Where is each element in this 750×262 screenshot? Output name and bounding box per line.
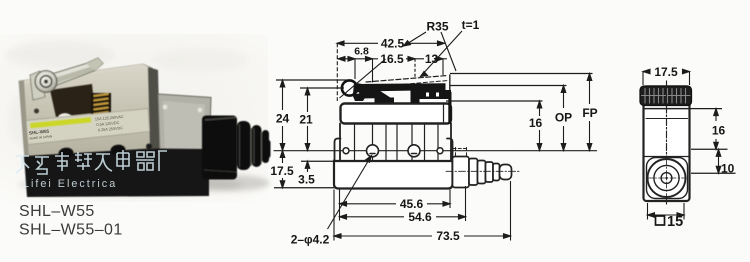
front view: head box <box>341 104 452 124</box>
photo: lever roller <box>35 71 57 93</box>
front view dimension texts <box>270 18 597 247</box>
side view: cable gland rings <box>647 158 688 199</box>
leader to roller pivot <box>340 59 386 98</box>
front view: roller <box>342 80 357 95</box>
caption model numbers <box>19 203 123 239</box>
side view dimension texts <box>654 65 734 230</box>
svg-text:73.5: 73.5 <box>436 229 460 243</box>
photo: ground shadow <box>18 175 270 194</box>
side view: centre line <box>666 81 668 206</box>
photo: plunger dome <box>58 113 72 122</box>
svg-text:SHL–W55: SHL–W55 <box>19 203 95 220</box>
photo: end cap plate <box>158 94 211 161</box>
svg-text:FP: FP <box>582 106 597 120</box>
photo: plunger spring <box>91 93 111 120</box>
front view: flange bottom line <box>335 160 453 162</box>
dim row 6.8 / 16.5 / 13 <box>338 57 447 83</box>
dim 54.6 bottom <box>340 186 466 221</box>
svg-text:42.5: 42.5 <box>381 37 405 51</box>
svg-text:16: 16 <box>712 124 726 138</box>
svg-text:10: 10 <box>721 162 735 176</box>
dim 24 left <box>276 80 348 151</box>
svg-text:3.5: 3.5 <box>298 173 315 187</box>
photo: black base <box>24 149 209 198</box>
dim 21 left <box>300 88 344 151</box>
front view: mounting holes 2-dia4.2 <box>367 145 379 157</box>
svg-text:2–φ4.2: 2–φ4.2 <box>291 233 330 247</box>
svg-text:15: 15 <box>667 214 683 230</box>
svg-text:Lifei Electrica: Lifei Electrica <box>23 178 117 190</box>
svg-text:t=1: t=1 <box>462 18 480 32</box>
dim 45.6 bottom <box>340 190 451 221</box>
front view: rubber boot rings <box>453 157 512 188</box>
front view: terminal divider lines <box>355 125 439 160</box>
dim OP right <box>450 86 567 151</box>
dim 42.5 top <box>337 41 445 101</box>
front view: lever arm solid <box>352 83 452 125</box>
photo: cable boot block <box>202 116 237 180</box>
leader R35 <box>404 32 457 71</box>
svg-text:17.5: 17.5 <box>270 164 294 178</box>
front view: terminal block side edges <box>339 124 341 161</box>
dim 16 right <box>446 101 543 151</box>
svg-text:17.5: 17.5 <box>654 65 678 79</box>
dim 17.5 left <box>274 151 334 188</box>
photo: watermark chinese characters <box>16 150 167 174</box>
svg-text:24: 24 <box>276 112 290 126</box>
svg-text:54.6: 54.6 <box>408 210 432 224</box>
photo background <box>0 34 268 202</box>
photo: switch metal body <box>19 64 154 161</box>
svg-text:R35: R35 <box>426 20 448 34</box>
photo: lever arm <box>30 58 103 100</box>
svg-text:16.5: 16.5 <box>380 52 404 66</box>
svg-text:6.8: 6.8 <box>354 46 369 58</box>
front view: lower body box <box>334 161 453 189</box>
dim 17.5 side top <box>643 69 690 85</box>
front view: boot centre line <box>446 170 519 172</box>
photo: boot bellows ridges <box>237 121 271 170</box>
dim 10 side <box>691 149 736 173</box>
front view: lever free position dashed <box>366 76 448 83</box>
leader 2-dia4.2 <box>328 156 372 230</box>
photo: dark gap to end cap <box>148 67 160 152</box>
dim 3.5 left <box>301 161 335 172</box>
svg-text:16: 16 <box>529 116 543 130</box>
dim 73.5 bottom <box>334 181 511 241</box>
side view: lever plate lines <box>644 108 690 110</box>
svg-text:OP: OP <box>555 111 572 125</box>
side view: body <box>644 87 690 202</box>
dim FP right <box>450 74 593 151</box>
photo: small hole on top face <box>34 109 39 114</box>
front view: cable gland dashed thread <box>453 148 467 169</box>
dim 16 side <box>690 109 728 150</box>
svg-text:45.6: 45.6 <box>400 197 424 211</box>
front view: mounting flange corners <box>335 139 341 162</box>
photo: label <box>26 109 150 145</box>
dim square-15 bottom <box>648 203 685 220</box>
svg-text:13: 13 <box>425 52 439 66</box>
svg-text:21: 21 <box>299 113 313 127</box>
svg-text:SHL–W55–01: SHL–W55–01 <box>19 222 123 239</box>
leader t=1 <box>421 31 463 77</box>
front view: hole centre line <box>274 150 597 152</box>
photo: terminal screw holes <box>58 144 152 160</box>
photo: dark recess under lever <box>50 84 95 117</box>
side view: roller block hatched <box>640 86 692 106</box>
